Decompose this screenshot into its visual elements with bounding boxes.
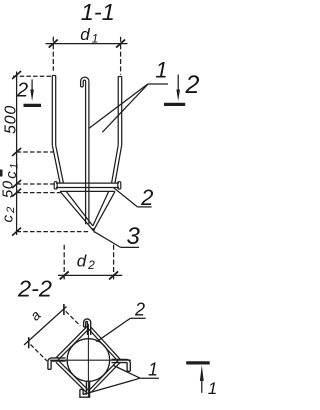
extension at tip: [17, 231, 89, 233]
strap 2 in section: bottom-right side: [89, 360, 120, 392]
label 2 underline (section): [130, 317, 145, 319]
dimension a extension to left corner: [31, 345, 48, 362]
cone shoe outer left: [60, 191, 93, 230]
extension line right of d1: [120, 37, 122, 75]
svg-text:2: 2: [5, 207, 17, 214]
strap 2 in section: top-left side: [56, 327, 89, 360]
leader from label 2 to collar: [114, 188, 138, 207]
svg-text:2: 2: [87, 258, 95, 272]
rebar 1 hook at top corner: [84, 319, 91, 335]
collar strap 2 bottom edge: [56, 187, 119, 189]
extension at bar bend: [17, 151, 53, 153]
dimension a line: [24, 307, 67, 346]
dimension a tick lower: [28, 337, 30, 348]
tick between 500 and c1: [12, 148, 21, 156]
rebar 1 hook at left corner: [48, 358, 66, 369]
page edge artifact: [0, 170, 3, 177]
svg-text:2: 2: [185, 71, 200, 99]
strap 2 in section: bottom-left side: [56, 360, 89, 392]
pile shaft circle: [67, 339, 110, 382]
dimension d2 value label: [77, 252, 95, 272]
tick between c1 and 50: [12, 180, 21, 188]
extension line left of d1: [52, 37, 54, 71]
dimension d1 value label: [80, 25, 98, 46]
label 3 underline: [121, 246, 139, 248]
svg-text:c: c: [3, 171, 20, 179]
svg-text:1: 1: [148, 360, 158, 380]
leader from label 1 to right bar: [102, 84, 148, 132]
dimension d1 tick left: [49, 40, 58, 48]
label 2 underline: [137, 206, 151, 208]
dimension a tick upper: [63, 304, 65, 315]
rebar 1 right bar: [112, 77, 122, 184]
label 1 underline: [148, 83, 168, 85]
label 1 underline (section): [140, 377, 159, 379]
dimension text c2: [0, 207, 17, 223]
tick at bottom of c2: [12, 228, 21, 236]
extension to bar top: [13, 75, 52, 77]
leader from label 1 to right hook: [114, 366, 141, 379]
section cut 2 marker left: arrow: [30, 79, 34, 101]
collar strap right end cap: [118, 182, 121, 189]
extension at collar top: [17, 183, 56, 185]
section cut 2 marker left: thick stroke: [24, 104, 42, 107]
tick at top of 500: [12, 71, 21, 79]
collar strap left end cap: [54, 182, 57, 189]
svg-text:500: 500: [3, 105, 20, 134]
svg-text:2: 2: [134, 299, 145, 319]
section cut 2 marker right: thick stroke: [164, 103, 185, 106]
svg-text:a: a: [27, 307, 44, 324]
dimension d1 line: [46, 43, 128, 45]
svg-text:2: 2: [16, 79, 28, 101]
dimension d2 extension right: [113, 245, 115, 280]
tick between 50 and c2: [12, 189, 21, 197]
leader from label 3 to tip: [94, 231, 121, 247]
rebar 1 hook at right corner: [112, 359, 131, 371]
section cut 2 marker right: arrow: [176, 75, 180, 101]
svg-text:2: 2: [140, 185, 153, 210]
svg-text:1-1: 1-1: [81, 0, 115, 25]
rebar 1 middle bar with hook: [81, 77, 89, 224]
dimension text c1: [3, 163, 21, 179]
dimension d1 tick right: [116, 40, 125, 48]
cone shoe inner right: [93, 191, 109, 225]
leader from label 2 to strap side: [97, 318, 131, 342]
svg-text:d: d: [77, 252, 87, 271]
svg-text:d: d: [80, 25, 90, 44]
dimension d2 tick left: [60, 271, 69, 279]
dimension d2 line: [58, 274, 122, 276]
cone shoe tip: [92, 228, 95, 233]
dimension a extension to top corner: [66, 311, 81, 326]
svg-text:50: 50: [0, 180, 17, 198]
cone shoe top edge: [60, 190, 115, 192]
vertical centerline of section 2-2: [87, 324, 89, 397]
horizontal centerline of section 2-2: [50, 359, 131, 361]
svg-text:1: 1: [208, 379, 217, 398]
svg-text:1: 1: [8, 163, 20, 169]
dimension d2 tick right: [109, 271, 118, 279]
rebar 1 left bar: [52, 76, 63, 184]
leader from label 1 to bottom hook: [83, 378, 140, 394]
cone shoe outer right: [93, 191, 115, 230]
svg-text:1: 1: [155, 58, 167, 83]
section cut 1 marker: arrow: [200, 365, 204, 393]
strap 2 in section: top-right side: [89, 327, 121, 362]
svg-text:2-2: 2-2: [17, 276, 52, 302]
dimension d2 extension left: [63, 245, 65, 280]
cone shoe inner left: [66, 191, 93, 225]
left dimension chain line: [16, 72, 18, 236]
svg-text:c: c: [0, 215, 16, 223]
rebar 1 hook at bottom corner: [80, 382, 90, 398]
leader from label 1 to middle bar: [89, 84, 148, 129]
collar strap 2 top edge: [56, 182, 119, 184]
section cut 1 marker: thick stroke: [186, 361, 210, 364]
extension at cone top: [17, 192, 61, 194]
svg-text:3: 3: [127, 223, 141, 250]
